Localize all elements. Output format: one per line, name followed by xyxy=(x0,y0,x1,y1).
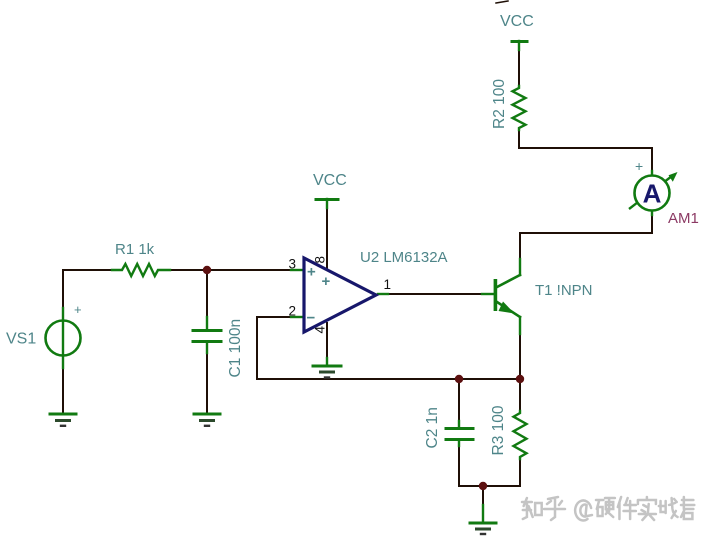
svg-text:4: 4 xyxy=(313,326,328,334)
svg-text:A: A xyxy=(643,179,662,209)
svg-text:8: 8 xyxy=(313,256,328,264)
svg-text:3: 3 xyxy=(288,257,296,272)
svg-text:VS1: VS1 xyxy=(6,331,36,348)
svg-text:+: + xyxy=(307,264,316,281)
svg-text:R2 100: R2 100 xyxy=(491,79,508,129)
svg-text:2: 2 xyxy=(288,304,296,319)
svg-text:VCC: VCC xyxy=(313,172,347,189)
svg-text:+: + xyxy=(635,158,643,174)
svg-text:VCC: VCC xyxy=(500,13,534,30)
svg-text:+: + xyxy=(322,273,331,290)
svg-text:C2 1n: C2 1n xyxy=(424,407,441,448)
svg-text:+: + xyxy=(74,302,82,317)
svg-text:−: − xyxy=(307,310,316,327)
svg-text:R1 1k: R1 1k xyxy=(115,241,155,258)
svg-text:AM1: AM1 xyxy=(668,210,699,227)
svg-text:1: 1 xyxy=(384,277,392,292)
svg-text:T1 !NPN: T1 !NPN xyxy=(535,282,593,299)
svg-text:U2 LM6132A: U2 LM6132A xyxy=(360,249,448,266)
svg-text:C1 100n: C1 100n xyxy=(227,319,244,378)
svg-text:R3 100: R3 100 xyxy=(490,405,507,455)
